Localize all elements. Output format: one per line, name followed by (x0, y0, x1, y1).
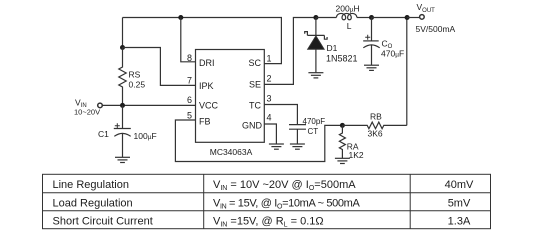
svg-text:Short Circuit Current: Short Circuit Current (53, 216, 153, 228)
svg-text:5mV: 5mV (448, 197, 471, 209)
svg-text:470µF: 470µF (381, 48, 404, 58)
svg-text:Load Regulation: Load Regulation (53, 197, 133, 209)
wire: switch node to inductor (316, 17, 337, 19)
wire: SE pin 2 up to switch node rail (264, 18, 316, 85)
svg-text:1K2: 1K2 (349, 150, 364, 160)
svg-text:Line Regulation: Line Regulation (53, 179, 129, 191)
svg-text:7: 7 (187, 76, 192, 86)
wire: top rail to SC pin 1 (123, 18, 282, 64)
svg-text:VCC: VCC (199, 101, 219, 111)
wire: Co node to output tap (372, 17, 407, 19)
ground: under CT (290, 144, 305, 149)
svg-text:FB: FB (199, 117, 211, 127)
svg-text:VIN =15V, @ RL = 0.1Ω: VIN =15V, @ RL = 0.1Ω (213, 216, 324, 229)
pin 1 SC (248, 54, 271, 69)
svg-text:3K6: 3K6 (368, 129, 383, 139)
capacitor CT (289, 125, 306, 144)
wire: TC pin 3 to CT (264, 105, 297, 125)
ground: under RA (335, 158, 350, 163)
wire: VIN to VCC pin 6 (103, 104, 196, 106)
svg-text:1: 1 (267, 54, 272, 64)
node: switch node / D1 junction (313, 15, 318, 20)
svg-text:GND: GND (242, 121, 263, 131)
pin 7 IPK (187, 76, 214, 92)
wire: RS top junction to IPK pin 7 (123, 48, 196, 86)
svg-text:VIN = 15V, @ IO=10mA ~ 500mA: VIN = 15V, @ IO=10mA ~ 500mA (213, 197, 360, 210)
resistor RA (339, 125, 345, 158)
pin 6 VCC (187, 95, 219, 111)
svg-text:D1: D1 (327, 43, 338, 53)
pin 3 TC (249, 94, 272, 111)
resistor RS (119, 48, 126, 106)
svg-text:RB: RB (370, 112, 382, 122)
svg-text:TC: TC (249, 101, 261, 111)
svg-text:DRI: DRI (199, 58, 215, 68)
wire: FB pin 5 to divider tap (175, 120, 342, 162)
node: VIN / C1 junction (120, 103, 125, 108)
svg-text:10~20V: 10~20V (74, 108, 100, 117)
svg-text:L: L (347, 21, 352, 31)
table row 2: Load Regulation (53, 197, 471, 210)
svg-text:470pF: 470pF (303, 117, 326, 126)
node VOUT terminal (420, 15, 425, 20)
node: output tap junction (405, 15, 410, 20)
pin 8 DRI (187, 53, 215, 68)
table row 1: Line Regulation (53, 179, 475, 192)
svg-text:CT: CT (308, 127, 319, 136)
svg-text:3: 3 (267, 94, 272, 104)
svg-text:SE: SE (249, 80, 261, 90)
pin 5 FB (187, 111, 211, 127)
resistor RB (342, 122, 406, 129)
ground: under Co (364, 65, 379, 70)
op-amp U1 MC34063A IC box (196, 50, 265, 143)
svg-text:100µF: 100µF (134, 131, 157, 141)
svg-text:IPK: IPK (199, 81, 214, 91)
ground: under GND pin (269, 144, 284, 149)
ground: under C1 (115, 157, 130, 162)
svg-text:5: 5 (187, 111, 192, 121)
wire: RS top to top rail vertical (122, 18, 124, 48)
capacitor Co (363, 18, 380, 66)
svg-text:2: 2 (267, 74, 272, 84)
node: top rail / DRI junction (178, 15, 183, 20)
svg-text:SC: SC (248, 58, 261, 68)
svg-text:200µH: 200µH (336, 4, 360, 14)
svg-text:6: 6 (187, 95, 192, 105)
svg-text:4: 4 (267, 113, 272, 123)
svg-text:VIN = 10V ~20V @ IO=500mA: VIN = 10V ~20V @ IO=500mA (213, 179, 356, 192)
wire: inductor to Co node (357, 17, 372, 19)
svg-text:8: 8 (187, 53, 192, 63)
svg-text:0.25: 0.25 (129, 80, 146, 90)
svg-text:40mV: 40mV (445, 179, 474, 191)
wire: GND pin 4 to ground (264, 124, 276, 144)
node: output / Co junction (369, 15, 374, 20)
node: feedback divider junction (340, 123, 345, 128)
wire: junction down to DRI pin 8 (181, 18, 196, 62)
node VIN terminal (98, 103, 103, 108)
ground: under D1 (308, 73, 323, 78)
capacitor C1 (114, 105, 131, 157)
inductor L (336, 13, 356, 19)
table row 3: Short Circuit Current (53, 216, 471, 229)
wire: output tap to VOUT terminal (407, 17, 419, 19)
node: RS top junction (120, 45, 125, 50)
svg-text:RS: RS (129, 70, 141, 80)
svg-text:MC34063A: MC34063A (210, 147, 253, 157)
wire: RB up to output rail (406, 18, 408, 126)
pin 2 SE (249, 74, 272, 90)
diode D1 1N5821 (305, 18, 327, 73)
table: regulation results (43, 174, 491, 228)
pin 4 GND (242, 113, 272, 131)
svg-text:1.3A: 1.3A (448, 216, 471, 228)
svg-text:C1: C1 (98, 129, 109, 139)
svg-text:5V/500mA: 5V/500mA (416, 24, 456, 34)
svg-text:1N5821: 1N5821 (326, 54, 358, 64)
